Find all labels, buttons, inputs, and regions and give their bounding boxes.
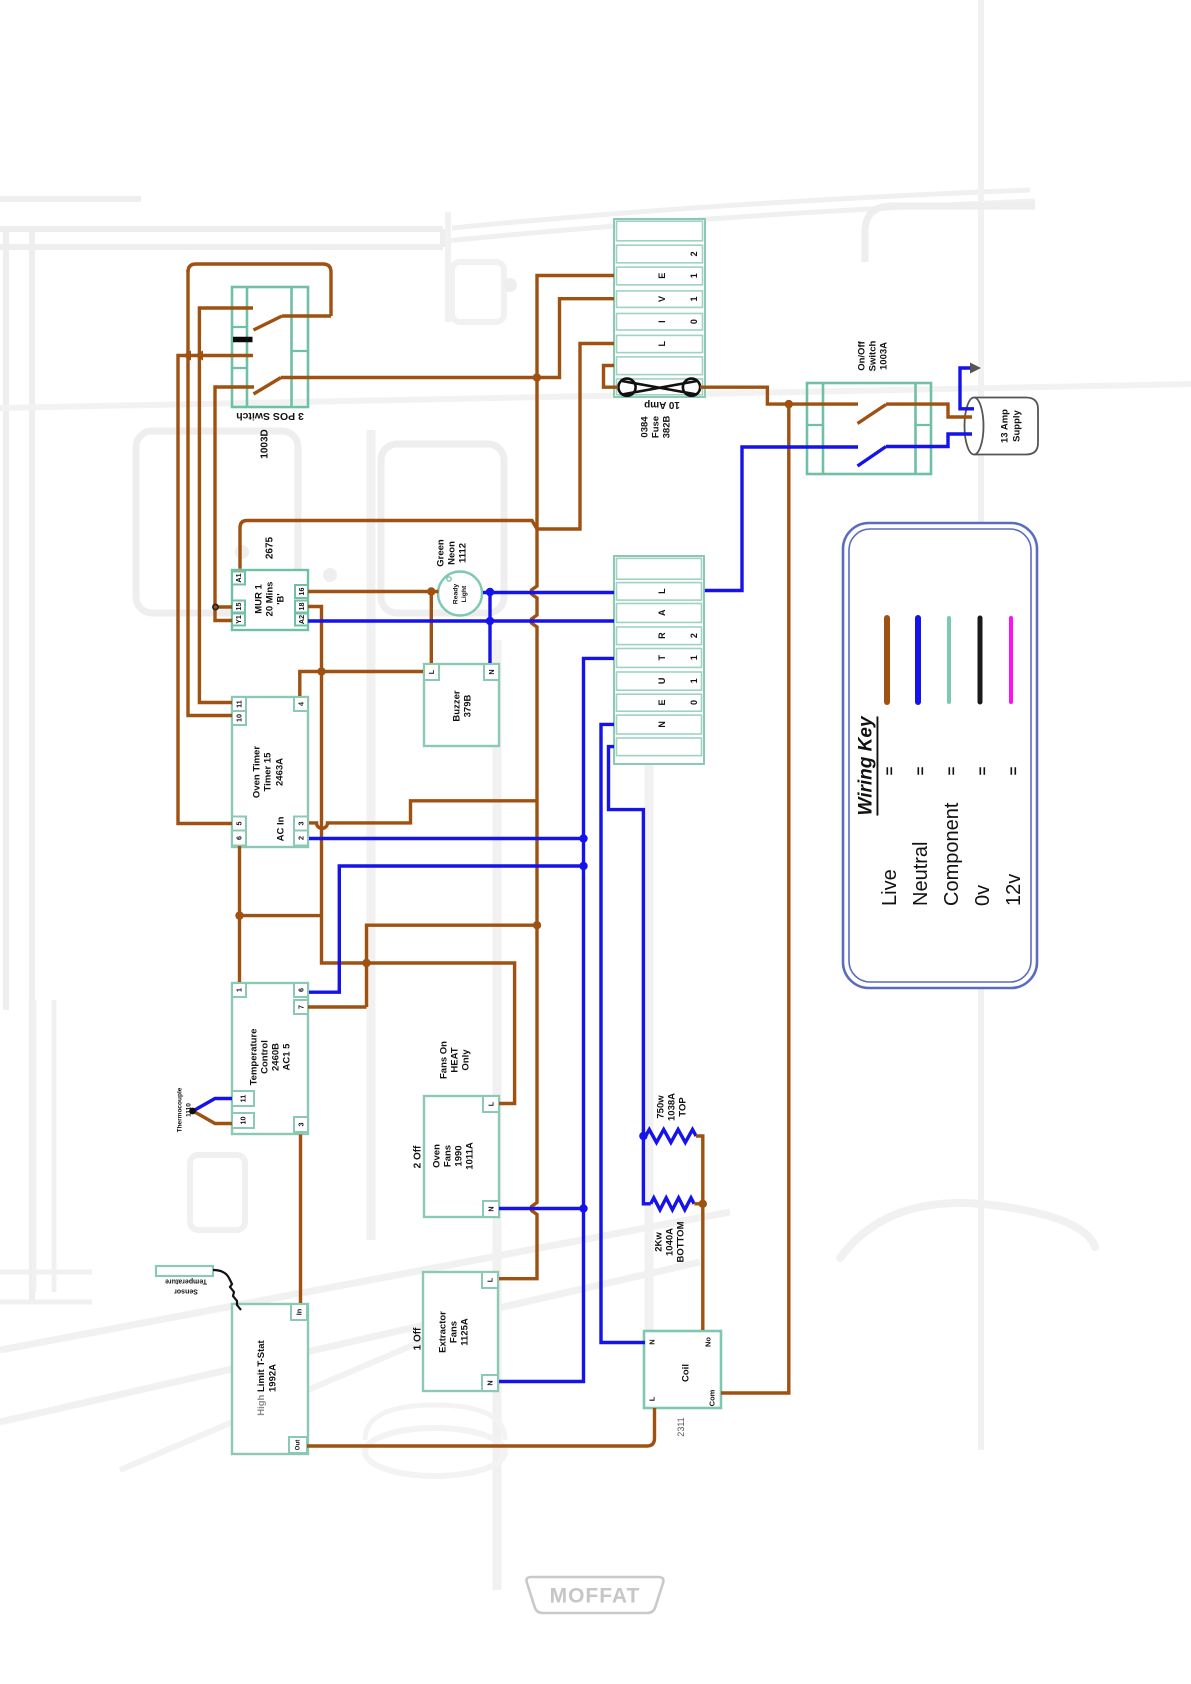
svg-text:0v: 0v: [972, 885, 994, 906]
lamp: Green Neon 1112 Ready Light: [436, 539, 483, 615]
svg-text:MOFFAT: MOFFAT: [550, 1585, 641, 1608]
wire neutral: SW2 blade: [858, 447, 887, 467]
svg-text:6: 6: [297, 988, 306, 992]
svg-text:No: No: [704, 1337, 713, 1347]
svg-text:TOP: TOP: [678, 1097, 689, 1117]
svg-text:L: L: [657, 341, 667, 347]
wire neutral: supply tap up with arrow: [960, 368, 974, 409]
svg-text:N: N: [487, 669, 496, 674]
svg-text:=: =: [882, 766, 899, 775]
svg-text:382B: 382B: [662, 416, 673, 439]
svg-text:Live: Live: [879, 869, 901, 906]
relay coil K1: Coil 2311: [644, 1331, 721, 1437]
svg-text:Oven Timer: Oven Timer: [252, 746, 263, 798]
resistor R2: 2Kw 1040A BOTTOM: [651, 1198, 694, 1263]
svg-text:Extractor: Extractor: [438, 1311, 449, 1353]
wire live: SW1 pole feed upper: [199, 308, 253, 703]
svg-text:Wiring Key: Wiring Key: [856, 715, 877, 815]
switch SW1 black 0v contact bar: [233, 337, 253, 342]
svg-text:7: 7: [297, 1005, 306, 1009]
timer relay U1: MUR 1 20 Mins B 2675: [232, 536, 308, 630]
wire neutral: SW2 to supply: [886, 434, 972, 447]
svg-text:1003D: 1003D: [260, 429, 271, 458]
svg-text:Com: Com: [708, 1389, 717, 1406]
svg-text:6: 6: [235, 836, 244, 840]
svg-text:Temperature: Temperature: [249, 1029, 260, 1086]
motor M2: Extractor Fans 1125A: [413, 1272, 499, 1391]
svg-text:L: L: [657, 588, 667, 594]
svg-text:A1: A1: [234, 573, 243, 582]
svg-text:1040A: 1040A: [665, 1228, 676, 1256]
wire neutral: drop to buzzer N: [488, 592, 491, 663]
svg-text:L: L: [486, 1277, 495, 1282]
wire live: SW1 upper blade: [254, 316, 283, 330]
svg-text:Neutral: Neutral: [910, 842, 932, 906]
wire neutral: NEUTRAL L to SW2: [705, 447, 858, 591]
switch SW1: 3 POS Switch 1003D: [232, 287, 308, 459]
svg-text:Green: Green: [436, 539, 447, 567]
svg-text:L: L: [487, 1101, 496, 1106]
svg-text:Oven: Oven: [432, 1144, 443, 1168]
wire live: V1 down to Oven Timer 10: [188, 270, 232, 716]
svg-text:3: 3: [297, 1123, 306, 1127]
logo: MOFFAT: [527, 1577, 664, 1613]
svg-text:0: 0: [689, 700, 699, 705]
wire live: A1 link to LIVE L: [240, 344, 614, 569]
svg-text:750w: 750w: [656, 1095, 667, 1119]
svg-text:T: T: [657, 655, 667, 661]
sensor: Temperature Sensor probe: [156, 1266, 241, 1310]
terminal block LIVE 0 1 1 2: [614, 219, 705, 397]
svg-text:In: In: [295, 1309, 304, 1315]
wire live: SW1 lower blade: [254, 378, 282, 395]
svg-text:11: 11: [239, 1095, 248, 1103]
svg-text:12v: 12v: [1003, 874, 1025, 906]
svg-text:11: 11: [235, 700, 244, 708]
svg-text:10: 10: [239, 1117, 248, 1125]
svg-text:2Kw: 2Kw: [654, 1232, 665, 1252]
resistor R1: 750w 1038A TOP: [646, 1093, 696, 1143]
wire live: SW1 lower blade feed: [215, 387, 254, 621]
wire live: top loop feed to SW1 upper blade: [188, 264, 331, 316]
wire neutral: neon to NEUTRAL L: [483, 591, 614, 594]
wire neutral: NEUTRAL T trunk down to extractor N: [499, 658, 614, 1381]
svg-text:2460B: 2460B: [271, 1043, 282, 1071]
terminal block NEUTRAL 0 1 1 2: [614, 556, 704, 764]
junction dots (neutral): [486, 588, 648, 1213]
svg-text:Out: Out: [295, 1440, 302, 1451]
svg-text:Fuse: Fuse: [651, 416, 662, 438]
svg-text:1990: 1990: [454, 1145, 465, 1166]
svg-text:1: 1: [235, 988, 244, 992]
wire live: MUR1 18 trunk down: [308, 607, 515, 1104]
wire live: com trunk down to coil Com: [721, 404, 789, 1393]
wire neutral: resistor R1 left lead: [643, 1134, 645, 1137]
svg-text:=: =: [1006, 766, 1023, 775]
svg-text:379B: 379B: [463, 695, 474, 718]
power source: 13 Amp Supply: [965, 398, 1039, 455]
svg-text:Timer 15: Timer 15: [263, 752, 274, 792]
svg-text:Only: Only: [461, 1049, 472, 1071]
svg-text:2463A: 2463A: [275, 758, 286, 786]
svg-text:Temperature: Temperature: [165, 1278, 207, 1285]
motor M1: Oven Fans 1990 1011A: [413, 1041, 500, 1217]
svg-text:1: 1: [689, 296, 699, 301]
svg-text:13 Amp: 13 Amp: [1000, 409, 1011, 443]
svg-text:1: 1: [689, 678, 699, 683]
legend: Wiring Key: [843, 523, 1037, 988]
svg-text:AC1 5: AC1 5: [282, 1043, 293, 1071]
switch SW2: On/Off Switch 1003A: [807, 340, 931, 474]
junction dots (live): [182, 351, 793, 1209]
svg-text:2: 2: [297, 836, 306, 840]
wire live: resistor R2 right lead: [694, 1202, 702, 1205]
svg-text:'B': 'B': [276, 593, 287, 604]
wire live: AC In branch to timer 3: [309, 801, 537, 829]
svg-text:E: E: [657, 699, 667, 705]
svg-text:Light: Light: [461, 585, 468, 602]
svg-text:A2: A2: [297, 615, 306, 624]
svg-text:2675: 2675: [265, 536, 276, 559]
wire live: timer 6 to temp control 1: [238, 846, 241, 982]
svg-text:0: 0: [689, 319, 699, 324]
svg-text:V: V: [657, 296, 667, 302]
svg-text:=: =: [913, 766, 930, 775]
wire live: link trunk2 riser to live trunk: [308, 925, 537, 1007]
svg-text:0384: 0384: [640, 416, 651, 438]
wire live: branch timer6 to trunk2: [240, 914, 322, 917]
svg-text:1038A: 1038A: [667, 1093, 678, 1121]
svg-text:Neon: Neon: [447, 541, 458, 565]
wire live: trunk to LIVE E: [499, 276, 614, 1279]
svg-text:=: =: [944, 766, 961, 775]
svg-text:Component: Component: [941, 802, 963, 906]
svg-text:Supply: Supply: [1012, 409, 1023, 441]
svg-text:1: 1: [689, 273, 699, 278]
svg-text:3: 3: [297, 822, 306, 826]
svg-text:Fans: Fans: [443, 1145, 454, 1167]
svg-text:1125A: 1125A: [460, 1318, 471, 1346]
wire live: SW1 output to LIVE V and trunk junction: [281, 299, 614, 378]
wire live: buzzer L feed from timer tab 4: [300, 672, 423, 697]
svg-text:Y1: Y1: [234, 615, 243, 624]
arrow: supply neutral arrowhead: [970, 363, 981, 374]
wire live: t-stat Out to coil L: [307, 1408, 655, 1446]
svg-text:Fans: Fans: [449, 1321, 460, 1343]
svg-text:Ready: Ready: [453, 584, 460, 605]
svg-text:U: U: [657, 678, 667, 685]
svg-text:L: L: [648, 1396, 657, 1401]
controller U3: Temperature Control 2460B AC15: [232, 983, 308, 1134]
svg-text:10: 10: [235, 714, 244, 722]
svg-text:R: R: [657, 632, 667, 639]
svg-text:2 Off: 2 Off: [413, 1145, 424, 1168]
svg-text:Sensor: Sensor: [174, 1288, 198, 1295]
svg-text:3 POS Switch: 3 POS Switch: [236, 410, 304, 422]
svg-text:1112: 1112: [458, 543, 469, 563]
wire live: SW2 to supply: [886, 404, 972, 417]
svg-text:16: 16: [297, 588, 306, 596]
wire live: SW1 pole feed middle / to Oven Timer 5: [178, 356, 253, 824]
wire live: MUR1 16 to buzzer L: [308, 592, 439, 664]
svg-text:E: E: [657, 273, 667, 279]
svg-text:I: I: [657, 320, 667, 323]
svg-text:2311: 2311: [676, 1417, 686, 1436]
wire live: resistor R1 lead to coil No: [696, 1136, 703, 1330]
wire live: temp control 3 to t-stat In: [299, 1135, 302, 1304]
fuse 0384 382B 10 Amp: [618, 379, 700, 439]
svg-text:N: N: [657, 721, 667, 728]
svg-text:Buzzer: Buzzer: [452, 690, 463, 721]
thermostat: High Limit T-Stat 1992A: [232, 1304, 308, 1454]
svg-text:1011A: 1011A: [465, 1142, 476, 1170]
wire neutral: thermocouple to temp control 11: [193, 1099, 232, 1112]
svg-text:15: 15: [234, 603, 243, 611]
svg-text:AC In: AC In: [276, 816, 287, 841]
svg-text:MUR 1: MUR 1: [254, 584, 265, 614]
svg-text:Coil: Coil: [681, 1364, 692, 1382]
svg-text:1 Off: 1 Off: [413, 1327, 424, 1350]
svg-text:On/Off: On/Off: [857, 340, 868, 370]
wire live: LIVE row hook to fuse: [604, 366, 619, 388]
svg-text:4: 4: [297, 702, 306, 706]
node: SW1 Y1/15 node: [213, 604, 218, 609]
wire neutral: NEUTRAL row to heating resistors: [609, 747, 651, 1204]
svg-text:5: 5: [235, 822, 244, 826]
buzzer BZ1: Buzzer 379B: [424, 664, 499, 746]
svg-text:High Limit T-Stat: High Limit T-Stat: [256, 1339, 267, 1415]
svg-text:18: 18: [297, 603, 306, 611]
svg-text:1: 1: [689, 655, 699, 660]
wire live: thermocouple to temp control 10: [193, 1111, 232, 1124]
svg-text:2: 2: [689, 251, 699, 256]
svg-text:N: N: [648, 1339, 657, 1344]
svg-text:2: 2: [689, 633, 699, 638]
wire live: SW2 blade: [858, 405, 887, 424]
svg-text:A: A: [657, 609, 667, 616]
svg-text:1003A: 1003A: [879, 342, 890, 370]
wire neutral: branch to temp control 6: [309, 866, 584, 992]
wire neutral: oven fans N branch: [499, 1207, 584, 1210]
svg-text:Control: Control: [260, 1040, 271, 1074]
svg-text:BOTTOM: BOTTOM: [676, 1221, 687, 1262]
svg-text:HEAT: HEAT: [450, 1047, 461, 1072]
wire neutral: timer 2 branch: [309, 837, 584, 840]
svg-text:Fans On: Fans On: [439, 1041, 450, 1079]
svg-text:N: N: [486, 1380, 495, 1385]
svg-text:L: L: [427, 669, 436, 674]
wire neutral: MUR1 A2 to NEUTRAL A: [308, 619, 614, 622]
svg-text:20 Mins: 20 Mins: [265, 582, 276, 617]
timer U2: Oven Timer Timer 15 2463A: [232, 697, 308, 847]
wire live: fuse output to SW2: [700, 387, 858, 404]
svg-text:1992A: 1992A: [268, 1364, 279, 1392]
svg-text:Switch: Switch: [868, 341, 879, 372]
wire neutral: NEUTRAL N to coil N: [601, 724, 645, 1342]
svg-text:=: =: [975, 766, 992, 775]
svg-text:N: N: [487, 1206, 496, 1211]
svg-text:Thermocouple: Thermocouple: [177, 1087, 184, 1132]
svg-text:10 Amp: 10 Amp: [644, 399, 680, 410]
junction: thermocouple tip: [189, 1108, 196, 1115]
sensor: Thermocouple 1110: [177, 1087, 193, 1132]
